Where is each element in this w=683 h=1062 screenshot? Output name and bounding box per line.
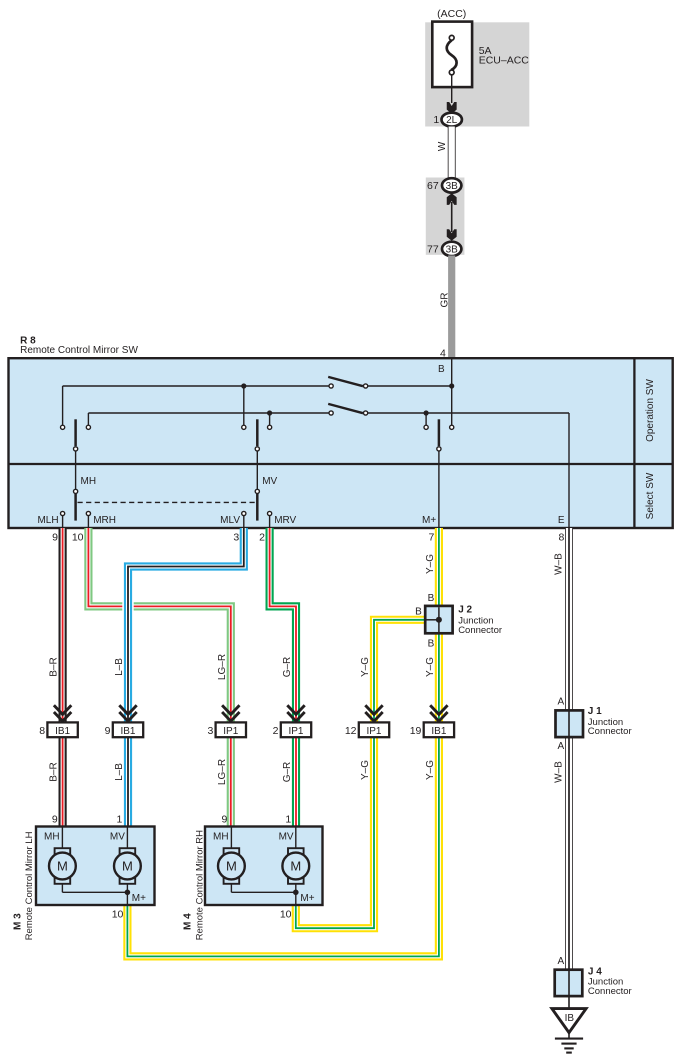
svg-text:MV: MV <box>279 832 294 843</box>
svg-text:10: 10 <box>112 909 124 921</box>
svg-text:B: B <box>428 593 435 604</box>
svg-text:9: 9 <box>105 725 111 737</box>
svg-text:J 1: J 1 <box>588 706 602 717</box>
svg-text:Y–G: Y–G <box>425 760 436 780</box>
svg-text:Remote Control Mirror RH: Remote Control Mirror RH <box>194 830 205 940</box>
svg-text:3B: 3B <box>446 181 459 192</box>
svg-text:12: 12 <box>345 725 357 737</box>
svg-text:MLV: MLV <box>220 515 240 526</box>
svg-text:B: B <box>428 638 435 649</box>
svg-text:IB1: IB1 <box>431 726 446 737</box>
svg-text:Remote Control Mirror LH: Remote Control Mirror LH <box>24 831 35 940</box>
svg-text:Remote Control Mirror SW: Remote Control Mirror SW <box>20 345 138 356</box>
svg-text:IB1: IB1 <box>55 726 70 737</box>
svg-text:ECU–ACC: ECU–ACC <box>479 54 530 66</box>
svg-text:77: 77 <box>427 244 439 256</box>
svg-text:7: 7 <box>429 532 435 544</box>
svg-text:MRV: MRV <box>274 515 296 526</box>
svg-text:W: W <box>437 141 448 151</box>
svg-text:1: 1 <box>433 114 439 126</box>
svg-text:A: A <box>558 696 565 707</box>
svg-text:1: 1 <box>285 813 291 825</box>
svg-text:MH: MH <box>44 832 60 843</box>
svg-text:A: A <box>558 741 565 752</box>
svg-text:M+: M+ <box>132 893 146 904</box>
svg-text:Y–G: Y–G <box>360 657 371 677</box>
svg-text:Connector: Connector <box>458 625 502 636</box>
svg-text:L–B: L–B <box>114 763 125 781</box>
svg-text:10: 10 <box>72 532 84 544</box>
svg-text:MV: MV <box>110 832 125 843</box>
svg-text:LG–R: LG–R <box>217 654 228 680</box>
svg-text:M 4: M 4 <box>183 913 194 930</box>
svg-text:G–R: G–R <box>282 657 293 678</box>
svg-text:Select SW: Select SW <box>645 472 656 519</box>
svg-text:2: 2 <box>273 725 279 737</box>
svg-text:3B: 3B <box>446 245 459 256</box>
svg-text:9: 9 <box>52 813 58 825</box>
svg-text:M+: M+ <box>422 515 436 526</box>
svg-text:M+: M+ <box>300 893 314 904</box>
svg-text:8: 8 <box>39 725 45 737</box>
svg-text:MV: MV <box>262 476 277 487</box>
svg-text:3: 3 <box>207 725 213 737</box>
svg-text:MLH: MLH <box>37 515 58 526</box>
svg-text:L–B: L–B <box>114 658 125 676</box>
svg-text:W–B: W–B <box>554 553 565 575</box>
svg-text:1: 1 <box>117 813 123 825</box>
svg-text:MH: MH <box>81 476 97 487</box>
svg-text:M: M <box>57 859 68 874</box>
svg-text:Connector: Connector <box>588 986 632 997</box>
svg-text:B: B <box>438 364 445 375</box>
svg-text:W–B: W–B <box>554 761 565 783</box>
svg-text:B: B <box>415 606 422 617</box>
svg-text:E: E <box>558 515 565 526</box>
svg-text:G–R: G–R <box>282 762 293 783</box>
svg-text:GR: GR <box>439 293 450 308</box>
svg-text:B–R: B–R <box>49 762 60 781</box>
svg-text:M: M <box>290 859 301 874</box>
svg-text:2L: 2L <box>446 115 458 126</box>
svg-text:3: 3 <box>233 532 239 544</box>
svg-text:IB1: IB1 <box>120 726 135 737</box>
svg-text:Y–G: Y–G <box>360 760 371 780</box>
svg-text:M: M <box>226 859 237 874</box>
svg-text:9: 9 <box>222 813 228 825</box>
svg-text:IP1: IP1 <box>366 726 381 737</box>
svg-text:LG–R: LG–R <box>217 759 228 785</box>
svg-text:IP1: IP1 <box>288 726 303 737</box>
svg-text:Operation SW: Operation SW <box>645 379 656 442</box>
svg-text:Y–G: Y–G <box>425 657 436 677</box>
svg-text:9: 9 <box>52 532 58 544</box>
svg-text:Connector: Connector <box>588 726 632 737</box>
svg-text:M: M <box>122 859 133 874</box>
svg-text:MRH: MRH <box>93 515 116 526</box>
svg-text:2: 2 <box>259 532 265 544</box>
svg-text:Y–G: Y–G <box>425 554 436 574</box>
svg-text:(ACC): (ACC) <box>437 8 466 20</box>
svg-text:A: A <box>558 956 565 967</box>
svg-text:8: 8 <box>559 532 565 544</box>
svg-text:10: 10 <box>280 909 292 921</box>
svg-text:IB: IB <box>565 1013 575 1024</box>
svg-text:J 2: J 2 <box>458 605 472 616</box>
svg-text:IP1: IP1 <box>223 726 238 737</box>
svg-text:B–R: B–R <box>49 657 60 676</box>
svg-text:67: 67 <box>427 180 439 192</box>
svg-text:MH: MH <box>213 832 229 843</box>
svg-text:M 3: M 3 <box>13 913 24 930</box>
svg-text:19: 19 <box>410 725 422 737</box>
